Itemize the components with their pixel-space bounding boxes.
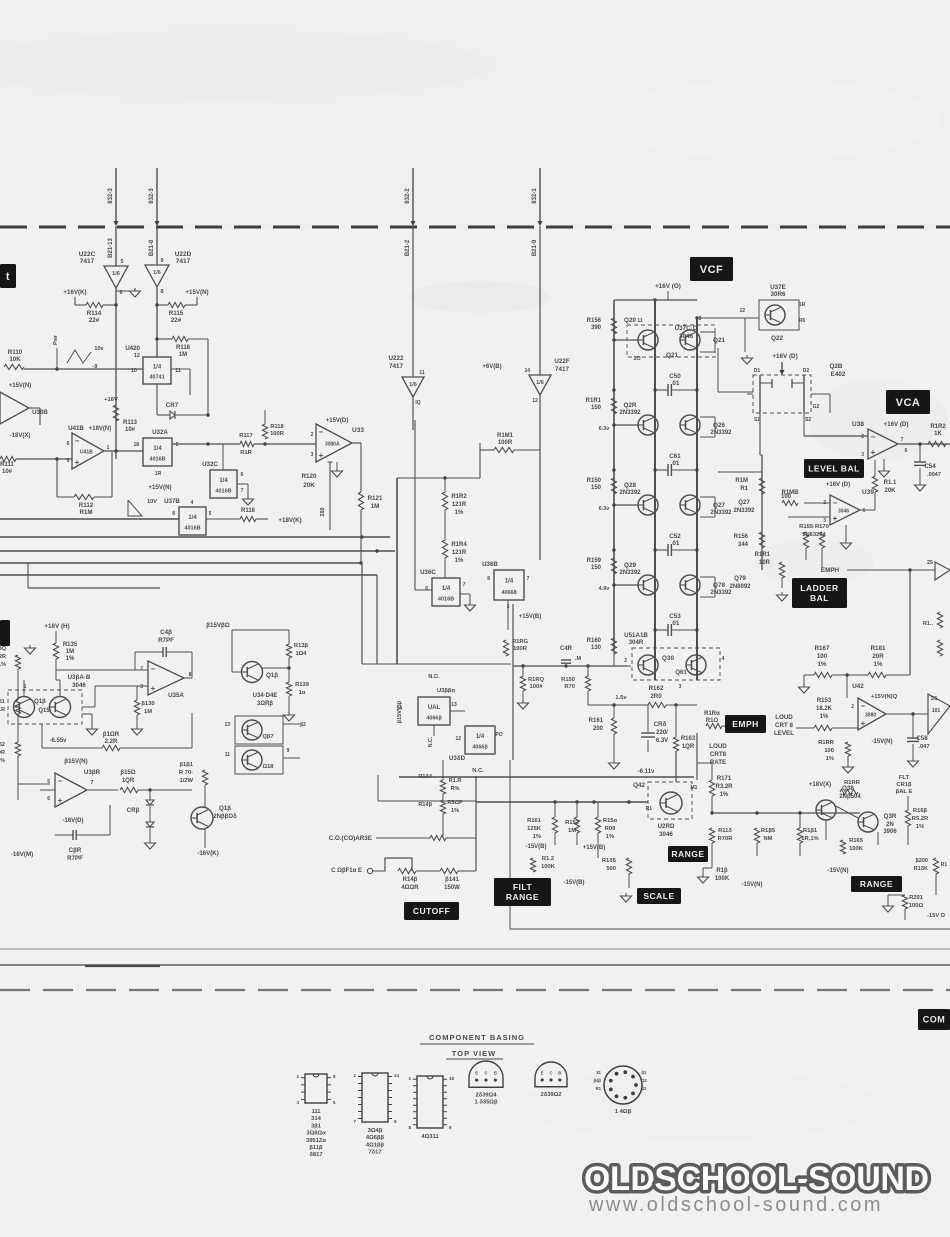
ground	[742, 355, 753, 364]
svg-text:U32A: U32A	[152, 429, 168, 436]
wire	[115, 226, 117, 459]
svg-text:100K: 100K	[849, 846, 864, 852]
svg-text:3ΩRβ: 3ΩRβ	[257, 701, 273, 707]
transistor Q27	[680, 495, 733, 516]
svg-text:2N3392: 2N3392	[733, 508, 755, 514]
wire	[540, 664, 627, 667]
svg-text:1K: 1K	[934, 431, 942, 437]
svg-text:R1: R1	[740, 486, 748, 492]
ic U420	[125, 345, 181, 384]
wire	[703, 843, 712, 874]
svg-text:1%: 1%	[874, 661, 883, 668]
svg-text:−: −	[871, 433, 876, 442]
horizontal rule upper	[0, 948, 950, 950]
svg-text:R156: R156	[587, 318, 602, 324]
connector arrow 832-1	[532, 168, 543, 226]
svg-text:100R: 100R	[498, 440, 513, 446]
net label 280	[320, 507, 326, 516]
resistor R135	[53, 631, 77, 680]
svg-text:111: 111	[311, 1109, 321, 1115]
wire	[919, 468, 921, 482]
svg-text:4.9ν: 4.9ν	[599, 586, 610, 592]
wire	[675, 751, 677, 782]
ic U36B	[482, 561, 530, 610]
wire bus	[0, 535, 390, 538]
svg-text:1M: 1M	[144, 709, 152, 715]
svg-text:CR7: CR7	[166, 402, 179, 409]
resistor R1R1 R1R	[0, 699, 21, 714]
resistor R156 344	[734, 532, 765, 548]
svg-text:4016B: 4016B	[149, 456, 165, 462]
svg-text:RANGE: RANGE	[671, 849, 704, 859]
svg-text:S2: S2	[805, 417, 811, 423]
svg-text:RANGE: RANGE	[860, 879, 893, 889]
resistor R110	[4, 349, 24, 370]
svg-text:7417: 7417	[555, 366, 570, 373]
svg-text:1/6: 1/6	[409, 382, 417, 388]
svg-text:R1RR: R1RR	[818, 740, 835, 746]
svg-text:3β1: 3β1	[311, 1123, 322, 1129]
svg-text:U36C: U36C	[420, 569, 436, 576]
resistor R1R1	[586, 398, 617, 414]
junction dots ladder	[612, 316, 698, 631]
svg-text:C4R: C4R	[560, 646, 573, 652]
wire	[156, 226, 158, 357]
label -16V(D)	[62, 818, 83, 824]
svg-text:N.C.: N.C.	[472, 768, 484, 774]
svg-text:C ΩβF1α E: C ΩβF1α E	[331, 868, 362, 874]
ground	[130, 288, 141, 297]
svg-text:M1: M1	[691, 785, 698, 791]
svg-text:R3.2R: R3.2R	[715, 784, 733, 790]
svg-text:100: 100	[781, 494, 792, 500]
svg-text:130: 130	[591, 645, 602, 651]
resistor R116	[206, 508, 302, 524]
capacitor CR6	[641, 705, 668, 744]
svg-text:12: 12	[739, 308, 745, 314]
svg-text:U222: U222	[388, 355, 404, 362]
sheet border line bottom-right block	[510, 760, 950, 929]
op-amp U30B	[0, 383, 48, 439]
svg-text:U2RD: U2RD	[658, 823, 675, 830]
net label B21-13	[108, 238, 114, 258]
svg-text:R1δ4: R1δ4	[418, 774, 433, 780]
transistor Q2R	[619, 402, 658, 435]
svg-text:4ΩΩR: 4ΩΩR	[401, 885, 419, 891]
svg-text:+15V(N): +15V(N)	[185, 289, 208, 296]
svg-text:CRβ: CRβ	[127, 807, 140, 814]
diode CR7	[166, 402, 179, 419]
svg-text:−: −	[75, 437, 80, 446]
wire ladder col2	[696, 318, 698, 680]
wire	[376, 444, 378, 664]
svg-text:R161: R161	[527, 818, 542, 824]
svg-text:13: 13	[451, 702, 457, 708]
wire bus	[0, 549, 395, 552]
svg-text:100Ω: 100Ω	[909, 903, 924, 909]
svg-text:3: 3	[861, 452, 864, 458]
svg-text:10v: 10v	[94, 346, 104, 352]
svg-text:U33: U33	[352, 427, 364, 434]
svg-text:R1: R1	[941, 862, 948, 868]
wire	[361, 563, 363, 664]
svg-text:1%: 1%	[533, 834, 541, 840]
resistor R151	[494, 433, 540, 453]
transistor Q15	[38, 697, 70, 718]
resistor R164 R10	[704, 711, 722, 729]
svg-text:2: 2	[311, 432, 314, 438]
wire	[539, 450, 541, 560]
svg-text:R70: R70	[564, 684, 575, 690]
svg-text:IQ: IQ	[415, 400, 420, 406]
wire	[82, 714, 92, 726]
ground	[879, 468, 890, 477]
wire	[138, 788, 192, 791]
ground	[841, 540, 852, 549]
wire	[443, 664, 511, 760]
svg-text:R1: R1	[646, 806, 653, 812]
wire	[17, 669, 19, 800]
svg-text:1M: 1M	[568, 828, 576, 834]
svg-text:150W: 150W	[444, 885, 460, 891]
ground	[87, 726, 98, 735]
svg-text:OLDSCHOOL-SOUND: OLDSCHOOL-SOUND	[584, 1160, 930, 1198]
svg-text:100K: 100K	[715, 876, 730, 882]
wire ladder col1	[654, 300, 656, 680]
svg-text:B: B	[494, 1070, 497, 1075]
svg-text:Q22: Q22	[771, 335, 783, 342]
svg-text:2: 2	[861, 434, 864, 440]
transistor Q3R	[858, 812, 898, 835]
svg-text:20K: 20K	[303, 482, 315, 489]
label LADDER BAL box	[792, 578, 847, 608]
ic U34C	[396, 697, 457, 725]
wire bus	[0, 518, 179, 520]
wire	[804, 428, 950, 444]
svg-text:β2: β2	[642, 1070, 648, 1075]
svg-text:+16V: +16V	[104, 397, 118, 403]
svg-text:+16V(K): +16V(K)	[63, 289, 86, 296]
svg-text:R118: R118	[176, 345, 191, 351]
op-amp partial right	[927, 560, 950, 580]
svg-text:R159: R159	[587, 558, 602, 564]
svg-text:+: +	[861, 719, 866, 728]
svg-text:3046: 3046	[838, 509, 849, 515]
svg-text:4Ω6ββ: 4Ω6ββ	[366, 1135, 385, 1141]
svg-text:1R: 1R	[155, 471, 162, 477]
svg-text:R15α: R15α	[603, 818, 618, 824]
svg-text:14: 14	[394, 1073, 400, 1078]
svg-text:20R: 20R	[872, 653, 884, 660]
wire ladder row	[612, 503, 638, 506]
svg-text:+15V(N): +15V(N)	[148, 484, 171, 491]
svg-text:6: 6	[905, 448, 908, 454]
resistor R201 100	[902, 895, 923, 909]
svg-text:−: −	[833, 499, 838, 508]
svg-text:β1ΩR: β1ΩR	[103, 732, 120, 738]
svg-text:R70R: R70R	[718, 836, 734, 842]
svg-text:280: 280	[320, 507, 326, 516]
svg-text:R1R: R1R	[0, 707, 5, 713]
svg-text:+: +	[151, 684, 156, 693]
resistor R160	[587, 638, 617, 654]
wire	[378, 775, 476, 801]
connector arrow 832-3	[149, 168, 160, 226]
logo OLDSCHOOL-SOUND	[584, 1160, 930, 1198]
svg-text:100R: 100R	[513, 646, 528, 652]
resistor R16R R5.2R	[905, 808, 929, 830]
wire	[613, 734, 615, 760]
transistor Q21	[680, 330, 726, 350]
ic U32A	[133, 429, 178, 477]
dashed pair box Q30	[624, 648, 724, 690]
net label Pwr	[53, 334, 59, 371]
capacitor C50	[655, 373, 697, 396]
svg-text:100R: 100R	[270, 431, 285, 437]
ground	[243, 496, 254, 505]
svg-text:U41B: U41B	[68, 425, 84, 432]
wire	[888, 874, 936, 920]
wire	[908, 568, 935, 675]
wire	[18, 748, 118, 835]
resistor R149	[520, 664, 544, 691]
op-amp partial U43	[928, 694, 950, 734]
svg-text:100K: 100K	[541, 864, 556, 870]
label U37E	[770, 284, 786, 298]
sheet boundary dashed line bottom	[0, 989, 950, 991]
svg-text:R114: R114	[87, 310, 102, 317]
label -15V(N)	[871, 739, 892, 745]
wire	[760, 413, 804, 570]
svg-text:U39: U39	[862, 489, 874, 496]
net label B21-9	[532, 239, 538, 256]
resistor R156	[587, 318, 617, 334]
svg-text:Pwr: Pwr	[53, 334, 59, 345]
label RANGE box right	[851, 876, 902, 892]
wire	[283, 722, 306, 758]
svg-text:1M: 1M	[179, 352, 187, 358]
svg-text:2: 2	[624, 658, 627, 664]
wire	[18, 783, 50, 785]
resistor R112 feedback	[57, 451, 112, 516]
wire	[476, 800, 648, 803]
svg-text:COMPONENT BASING: COMPONENT BASING	[429, 1033, 525, 1042]
svg-text:1: 1	[107, 445, 110, 451]
svg-text:−: −	[58, 777, 63, 786]
resistor R138 1M	[134, 686, 154, 715]
svg-text:Q42: Q42	[633, 782, 645, 789]
resistor R154 R09	[595, 817, 617, 840]
svg-text:1%: 1%	[455, 510, 464, 516]
ground	[132, 726, 143, 735]
label FILT RANGE box	[494, 878, 551, 906]
wire	[136, 715, 138, 726]
svg-text:Q38: Q38	[842, 785, 854, 792]
svg-text:R150: R150	[561, 677, 575, 683]
svg-text:LEVEL BAL: LEVEL BAL	[808, 464, 860, 474]
resistor R117	[239, 433, 254, 456]
svg-text:CUTOFF: CUTOFF	[413, 906, 450, 916]
resistor R113	[104, 397, 138, 433]
resistor R165 100K	[840, 838, 863, 854]
svg-text:1 4Ωβ: 1 4Ωβ	[615, 1109, 632, 1115]
svg-text:UAL: UAL	[428, 705, 441, 711]
svg-text:16: 16	[449, 1076, 455, 1081]
svg-text:R167: R167	[815, 645, 830, 652]
svg-text:C50: C50	[669, 373, 681, 380]
svg-text:390: 390	[591, 325, 602, 331]
svg-text:22#: 22#	[171, 317, 182, 324]
svg-text:R162: R162	[649, 685, 664, 692]
svg-text:4: 4	[191, 500, 194, 506]
svg-text:VCF: VCF	[700, 264, 724, 276]
wire	[171, 369, 190, 395]
wire	[104, 421, 143, 453]
svg-text:1%: 1%	[606, 834, 614, 840]
svg-text:25: 25	[927, 560, 933, 566]
op-amp U35A	[140, 661, 191, 699]
svg-text:314: 314	[311, 1116, 321, 1122]
svg-text:2N3392: 2N3392	[619, 570, 641, 576]
svg-text:-6.55ν: -6.55ν	[49, 738, 67, 744]
wire	[886, 713, 928, 715]
svg-text:8: 8	[487, 576, 490, 582]
svg-text:R153: R153	[817, 698, 832, 704]
svg-text:R121: R121	[368, 495, 383, 502]
power label +16V(O)	[655, 283, 681, 290]
svg-text:2N3392: 2N3392	[710, 590, 732, 596]
svg-text:C: C	[484, 1070, 487, 1075]
resistor R155	[803, 532, 808, 548]
svg-text:U37B: U37B	[164, 498, 180, 505]
wire	[359, 510, 362, 565]
label U38	[852, 421, 908, 428]
svg-text:40741: 40741	[149, 375, 164, 381]
wire	[697, 763, 712, 813]
svg-text:B21-2: B21-2	[405, 239, 411, 256]
svg-text:-18V(X): -18V(X)	[10, 433, 31, 439]
power label +15V(D) rot	[397, 700, 403, 723]
label -15V(N) a	[741, 882, 762, 888]
svg-text:2NββOδ: 2NββOδ	[213, 814, 237, 820]
ic U37B	[172, 500, 211, 535]
label U35AB 3046	[68, 674, 91, 689]
svg-text:R150: R150	[587, 478, 602, 484]
svg-text:.0047: .0047	[927, 472, 941, 478]
svg-text:R1R2: R1R2	[451, 494, 467, 500]
package DIP-16	[408, 1076, 454, 1140]
diode CR8 a	[127, 800, 154, 814]
label EMPH box	[725, 715, 766, 733]
power label +16V(D)	[772, 353, 797, 360]
transistor Q14	[13, 697, 46, 718]
svg-text:R1RQ: R1RQ	[528, 677, 545, 683]
sheet boundary dashed line top	[0, 226, 950, 229]
svg-text:3080A: 3080A	[325, 442, 340, 448]
svg-text:+: +	[58, 796, 63, 805]
svg-text:B21-8: B21-8	[149, 239, 155, 256]
svg-text:-6.11ν: -6.11ν	[638, 769, 655, 775]
label N.C. 2	[428, 736, 434, 747]
label SCALE box	[637, 888, 681, 904]
wire	[588, 703, 697, 706]
svg-text:6.3ν: 6.3ν	[599, 506, 610, 512]
svg-text:10V: 10V	[147, 499, 157, 505]
svg-text:R1R2: R1R2	[930, 424, 946, 430]
resistor R153 1M	[565, 817, 580, 834]
svg-text:β11β: β11β	[309, 1145, 323, 1151]
svg-text:U34·D4E: U34·D4E	[253, 693, 278, 699]
resistor R159	[587, 558, 617, 574]
svg-text:R1R1: R1R1	[755, 552, 771, 558]
svg-text:β4β: β4β	[594, 1078, 602, 1083]
svg-text:10#: 10#	[125, 427, 136, 433]
svg-text:+6V(B): +6V(B)	[482, 364, 501, 370]
ground	[799, 684, 810, 693]
svg-text:PO: PO	[495, 732, 502, 738]
dashed pair box Q14 Q15	[8, 684, 82, 724]
svg-text:11: 11	[637, 318, 643, 324]
svg-text:R120: R120	[301, 473, 317, 480]
wire	[700, 497, 715, 517]
svg-text:U3βR: U3βR	[84, 769, 101, 776]
transistor Q28	[619, 482, 658, 515]
svg-text:+18V(X): +18V(X)	[809, 782, 831, 788]
dual fet Q2B	[747, 363, 846, 423]
resistor R1B2 BOR	[0, 742, 21, 764]
wire	[204, 748, 206, 848]
svg-text:+16V (H): +16V (H)	[44, 623, 69, 630]
resistor R161 200	[589, 703, 617, 734]
transistor Q42	[633, 782, 698, 819]
svg-text:5N63204: 5N63204	[802, 532, 826, 538]
svg-text:Q30: Q30	[662, 655, 674, 662]
wire	[539, 226, 541, 450]
svg-text:.M: .M	[575, 656, 582, 662]
svg-text:1/4: 1/4	[505, 579, 514, 585]
label -15V(B) 2	[563, 880, 584, 886]
svg-text:8: 8	[189, 672, 192, 678]
svg-text:R1R: R1R	[240, 450, 252, 456]
svg-text:LOUD: LOUD	[709, 743, 727, 750]
svg-text:β15VβΩ: β15VβΩ	[206, 622, 230, 629]
label U42	[852, 683, 897, 700]
wire	[412, 226, 414, 430]
transistor Q16	[241, 662, 278, 683]
svg-text:1R: 1R	[799, 302, 806, 308]
wire	[883, 459, 885, 468]
svg-text:1M: 1M	[66, 649, 74, 655]
package DIP-8	[296, 1074, 336, 1158]
resistor R170	[819, 532, 824, 548]
diode CR8 b	[146, 822, 154, 827]
resistor R16R 100	[818, 740, 850, 762]
svg-text:7: 7	[527, 576, 530, 582]
svg-text:B: B	[558, 1070, 561, 1075]
label U28D 3046	[658, 823, 675, 838]
svg-text:CRT 8: CRT 8	[775, 722, 793, 729]
svg-text:-15V D: -15V D	[927, 913, 945, 919]
svg-text:1%: 1%	[451, 808, 459, 814]
svg-text:6: 6	[863, 508, 866, 514]
ground	[25, 645, 36, 654]
label U51A1B	[624, 632, 648, 646]
svg-text:CR1β: CR1β	[896, 782, 912, 788]
svg-text:+15V(B): +15V(B)	[519, 614, 542, 620]
svg-text:CRT8: CRT8	[710, 751, 727, 758]
wire	[821, 560, 823, 568]
wire	[757, 843, 800, 856]
